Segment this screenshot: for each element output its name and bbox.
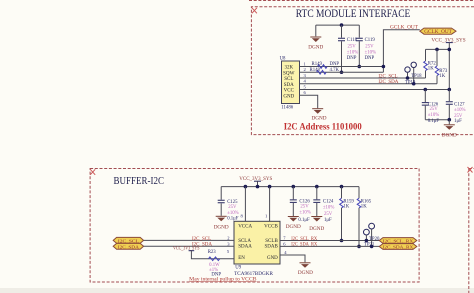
svg-text:I2C_SDA: I2C_SDA — [378, 80, 398, 85]
svg-text:SCL: SCL — [284, 77, 293, 82]
svg-text:11486: 11486 — [281, 105, 293, 110]
svg-text:I2C_SCL: I2C_SCL — [192, 237, 211, 242]
svg-text:1K: 1K — [439, 74, 445, 79]
svg-text:0.1μF: 0.1μF — [428, 119, 440, 124]
svg-text:TP21: TP21 — [364, 242, 375, 247]
svg-text:DNP: DNP — [347, 56, 357, 61]
svg-text:25V: 25V — [454, 114, 463, 119]
svg-text:25V: 25V — [300, 205, 309, 210]
svg-text:R23: R23 — [208, 250, 217, 255]
svg-text:R148: R148 — [310, 68, 321, 73]
svg-text:1K: 1K — [343, 205, 349, 210]
svg-text:0.1μF: 0.1μF — [298, 218, 310, 223]
svg-text:±10%: ±10% — [454, 108, 465, 113]
svg-text:C119: C119 — [365, 38, 376, 43]
svg-text:1K: 1K — [361, 205, 367, 210]
svg-text:25V: 25V — [365, 44, 374, 49]
svg-text:±10%: ±10% — [347, 50, 358, 55]
svg-text:DGND: DGND — [309, 226, 324, 232]
svg-text:I2C_SCL: I2C_SCL — [378, 74, 397, 79]
svg-text:SDA: SDA — [284, 83, 294, 88]
svg-text:DGND: DGND — [214, 224, 229, 230]
svg-text:1μF: 1μF — [324, 218, 332, 223]
svg-text:TP19: TP19 — [405, 80, 416, 85]
svg-text:SDAB: SDAB — [264, 244, 278, 249]
svg-text:±10%: ±10% — [365, 50, 376, 55]
svg-text:R149: R149 — [312, 62, 323, 67]
svg-text:I2C_SDA: I2C_SDA — [118, 244, 140, 249]
svg-text:BUFFER-I2C: BUFFER-I2C — [114, 176, 165, 187]
svg-text:DNP: DNP — [211, 273, 221, 278]
svg-text:EN: EN — [238, 256, 245, 261]
svg-text:VCC_3V3_SYS: VCC_3V3_SYS — [173, 247, 200, 252]
svg-text:1μF: 1μF — [454, 119, 462, 124]
svg-text:GND: GND — [283, 94, 294, 99]
svg-text:SQW: SQW — [283, 71, 295, 76]
svg-text:TP18: TP18 — [411, 74, 422, 79]
svg-text:C127: C127 — [454, 102, 465, 107]
svg-text:SCLB: SCLB — [265, 239, 278, 244]
svg-text:C124: C124 — [323, 200, 334, 205]
svg-text:U9: U9 — [235, 266, 241, 271]
svg-text:DGND: DGND — [442, 133, 457, 139]
svg-text:1K: 1K — [428, 66, 434, 71]
svg-text:U8: U8 — [280, 56, 286, 61]
svg-text:±10%: ±10% — [227, 211, 238, 216]
svg-text:VCC: VCC — [284, 89, 295, 94]
svg-text:DGND: DGND — [308, 44, 323, 50]
svg-text:May internal pullup to VCCB: May internal pullup to VCCB — [189, 277, 257, 282]
svg-text:SCLA: SCLA — [238, 239, 251, 244]
svg-text:4.7K: 4.7K — [330, 68, 340, 73]
svg-text:25V: 25V — [228, 205, 237, 210]
svg-text:GND: GND — [267, 256, 278, 261]
svg-text:25V: 25V — [324, 212, 333, 217]
svg-text:RTC MODULE INTERFACE: RTC MODULE INTERFACE — [296, 8, 411, 20]
svg-text:32K: 32K — [284, 66, 293, 71]
svg-text:I2C Address 1101000: I2C Address 1101000 — [284, 122, 362, 132]
svg-text:DGND: DGND — [298, 270, 313, 276]
svg-text:I2C_SCL: I2C_SCL — [118, 238, 139, 243]
svg-text:±10%: ±10% — [323, 206, 334, 211]
svg-text:25V: 25V — [348, 44, 357, 49]
svg-text:VCCB: VCCB — [264, 224, 278, 229]
svg-text:GCLK_OUT: GCLK_OUT — [424, 30, 452, 35]
svg-text:25V: 25V — [430, 107, 439, 112]
svg-text:I2C_SCL_RX: I2C_SCL_RX — [383, 239, 414, 244]
svg-text:I2C_SCL_RX: I2C_SCL_RX — [291, 237, 317, 242]
svg-text:VCCA: VCCA — [238, 224, 252, 229]
svg-text:DNP: DNP — [365, 56, 375, 61]
svg-text:DNP: DNP — [330, 62, 340, 67]
svg-text:DGND: DGND — [286, 224, 301, 230]
svg-text:GCLK_OUT: GCLK_OUT — [390, 25, 418, 30]
svg-text:SDAA: SDAA — [238, 244, 252, 249]
svg-text:I2C_SDA_RX: I2C_SDA_RX — [291, 243, 317, 248]
svg-text:±10%: ±10% — [299, 211, 310, 216]
svg-text:I2C_SDA_RX: I2C_SDA_RX — [383, 245, 414, 250]
svg-text:±10%: ±10% — [428, 113, 439, 118]
